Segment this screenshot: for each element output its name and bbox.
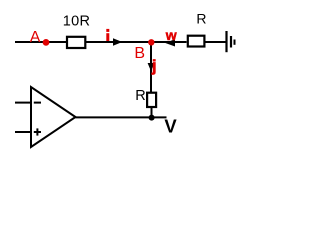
- svg-text:B: B: [134, 45, 145, 62]
- svg-text:V: V: [164, 115, 177, 136]
- svg-text:R: R: [135, 88, 145, 104]
- svg-text:10R: 10R: [63, 13, 91, 29]
- svg-text:w: w: [165, 27, 177, 43]
- svg-text:A: A: [30, 29, 41, 46]
- svg-text:j: j: [151, 58, 156, 75]
- svg-text:R: R: [196, 10, 206, 26]
